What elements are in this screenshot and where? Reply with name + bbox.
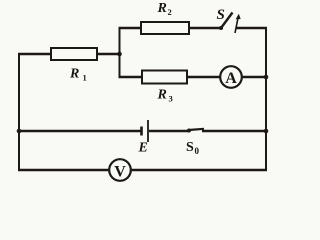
wire branch vertical at node A <box>119 28 121 77</box>
switch S0 pivot dot <box>187 129 191 133</box>
battery E long plate <box>147 120 149 142</box>
resistor R1 <box>51 48 97 60</box>
wire battery row left segment <box>19 130 141 132</box>
svg-text:S: S <box>186 140 194 155</box>
svg-text:S: S <box>217 7 225 23</box>
svg-text:E: E <box>138 141 148 156</box>
svg-text:R: R <box>157 1 167 16</box>
wire top-left horizontal to R1 <box>18 53 52 55</box>
svg-text:V: V <box>114 164 126 181</box>
svg-text:1: 1 <box>83 73 87 83</box>
junction dot right rail / ammeter branch <box>264 75 269 80</box>
svg-text:0: 0 <box>195 146 200 156</box>
svg-text:R: R <box>69 67 79 82</box>
battery E short plate <box>140 127 143 136</box>
wire battery to switch S0 <box>149 130 189 132</box>
wire bottom row left segment <box>18 169 110 171</box>
junction dot left rail / battery row <box>17 129 22 134</box>
resistor R2 <box>141 22 189 34</box>
svg-text:3: 3 <box>169 94 173 104</box>
wire node A to R3 <box>119 76 144 78</box>
wire R2 to switch S <box>189 27 221 29</box>
switch S0 closed blade <box>189 129 204 130</box>
wire voltmeter to right rail <box>131 169 267 171</box>
wire R1 to node A <box>97 53 120 55</box>
resistor R3 <box>142 71 187 84</box>
wire ammeter to right rail <box>242 76 266 78</box>
junction dot right rail / battery row <box>264 129 269 134</box>
ammeter A body <box>220 66 242 88</box>
wire node A to R2 <box>119 27 143 29</box>
switch S arrow shaft <box>235 17 238 33</box>
wire S0 to right rail <box>202 130 266 132</box>
switch S arrowhead <box>236 14 241 19</box>
node A junction dot <box>117 52 122 57</box>
svg-text:2: 2 <box>168 7 172 17</box>
switch S pivot dot <box>219 26 223 30</box>
voltmeter V body <box>109 159 131 181</box>
switch S open blade <box>221 13 233 29</box>
wire left vertical rail <box>18 53 20 171</box>
svg-text:A: A <box>225 70 237 87</box>
wire right vertical rail <box>265 27 267 171</box>
wire switch S to right rail <box>236 27 267 29</box>
wire R3 to ammeter <box>187 76 221 78</box>
svg-text:R: R <box>157 88 167 103</box>
